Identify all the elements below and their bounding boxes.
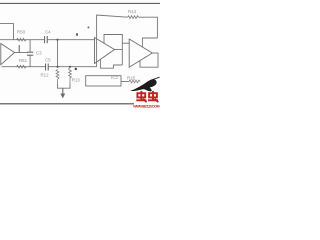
wire box to R15	[121, 81, 129, 83]
op-amp IC1 (left, partially cut)	[1, 44, 15, 65]
wire C5 to op-amp input bar	[48, 66, 96, 68]
capacitor C4	[44, 36, 46, 43]
svg-text:R12: R12	[41, 72, 50, 77]
junction node after C4	[56, 39, 58, 41]
resistor R51	[17, 65, 27, 68]
svg-text:IC2: IC2	[111, 75, 118, 80]
resistor R13 (vertical)	[69, 67, 72, 84]
svg-text:C4: C4	[45, 29, 51, 34]
wire input top-left (node to R50 feedback)	[0, 24, 14, 40]
wire IC3 bottom feedback	[140, 53, 158, 67]
logo char chong 1	[136, 91, 146, 102]
bottom watermark line	[0, 103, 134, 105]
resistor R50	[17, 38, 27, 41]
speck dot	[88, 27, 90, 29]
logo char chong 2	[148, 91, 158, 102]
svg-text:R15: R15	[127, 75, 136, 80]
logo cap (black)	[130, 79, 156, 91]
ground arrow	[62, 88, 64, 94]
wire vertical node B down	[57, 40, 59, 67]
wire R14 to right rail	[139, 17, 158, 38]
capacitor C3	[27, 51, 33, 53]
top border line	[0, 2, 160, 4]
resistor R14	[128, 16, 139, 19]
svg-text:R50: R50	[17, 29, 26, 34]
junction node R13 top	[69, 66, 71, 68]
svg-text:WWW.BZ120.COM: WWW.BZ120.COM	[133, 104, 159, 108]
wire C4 to op-amp IC2 input	[47, 39, 94, 41]
wire IC3 top feedback	[142, 38, 157, 47]
wire feedback from top rail down	[97, 15, 128, 67]
junction node wire C x57	[56, 66, 58, 68]
junction dot node	[75, 68, 77, 70]
svg-text:C5: C5	[45, 57, 51, 62]
op-amp IC2 triangle	[95, 38, 115, 64]
wire IC2 output to IC3	[115, 49, 123, 51]
op-amp IC1 output wire	[15, 52, 28, 54]
svg-text:C3: C3	[36, 50, 42, 55]
svg-text:R51: R51	[19, 58, 28, 63]
wire ground bus	[58, 84, 71, 89]
wire IC2 bottom feedback	[100, 60, 122, 69]
svg-text:R14: R14	[128, 9, 137, 14]
wire main signal path (node B)	[0, 39, 44, 41]
capacitor C5	[45, 64, 47, 71]
block IC2 box	[86, 76, 121, 86]
pin speck 2	[76, 33, 78, 36]
tick at op-amp IC1 output	[18, 45, 20, 53]
resistor R15	[129, 80, 140, 83]
resistor R12 (vertical)	[56, 70, 59, 84]
op-amp IC3 output wire	[152, 52, 158, 54]
wire IC2 top feedback	[104, 35, 122, 66]
svg-text:R13: R13	[72, 77, 81, 82]
wire lower path (node C)	[2, 66, 46, 68]
op-amp IC3 triangle	[129, 39, 152, 67]
